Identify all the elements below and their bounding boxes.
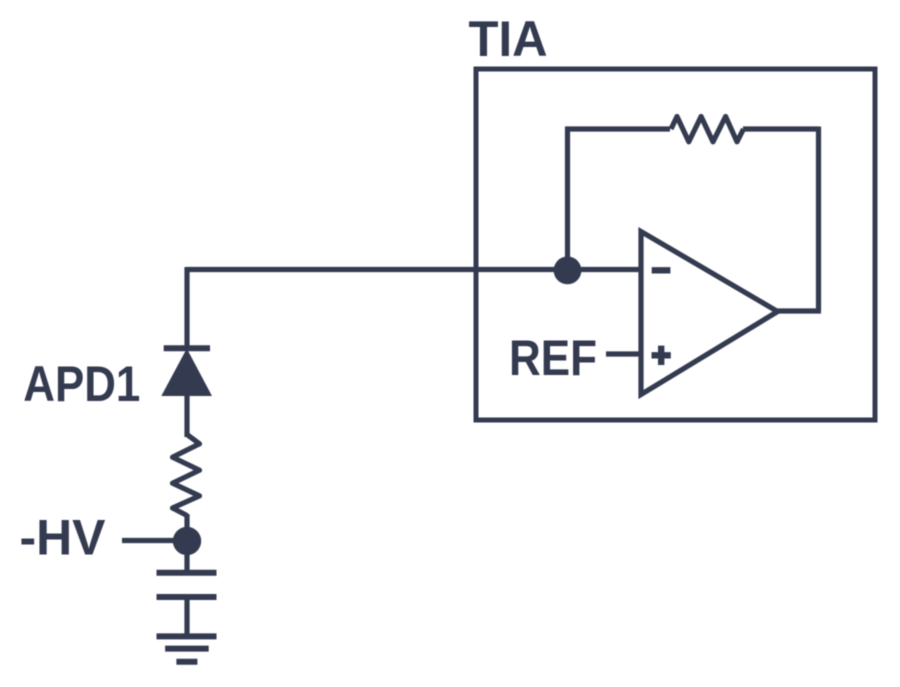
wire: feedback top right segment [743,126,819,131]
wire: vertical drop from horizontal wire to APD1 cathode [184,267,189,349]
wire: op-amp output to feedback [777,308,821,313]
op-amp inverting input minus sign [652,267,671,273]
svg-text:TIA: TIA [469,10,548,67]
wire: feedback right vertical [816,127,821,312]
resistor RF (feedback, horizontal zigzag) [671,117,744,142]
wire: -HV feed [122,538,180,543]
wire: feedback top left segment [565,126,670,131]
wire: resistor R1 to -HV node [184,514,189,540]
op-amp U1 triangle [641,232,778,395]
wire: REF to op-amp non-inverting input [606,351,641,356]
wire: capacitor C1 to ground [184,595,189,636]
wire: feedback left vertical (node to loop top) [565,129,570,270]
wire: -HV node to capacitor C1 [184,541,189,570]
svg-text:APD1: APD1 [23,355,140,412]
diode APD1 cathode bar [164,345,210,351]
wire: APD1 anode to resistor R1 [184,394,189,437]
resistor R1 (vertical zigzag) [173,435,200,516]
ground symbol [157,636,217,661]
wire: APD node to op-amp inverting input [187,267,641,272]
op-amp non-inverting input plus sign [652,346,671,365]
node: -HV junction dot [173,527,201,555]
node: junction dot at inverting input [554,257,582,285]
svg-text:-HV: -HV [20,509,106,566]
capacitor C1 bottom plate [157,594,217,600]
TIA block box [476,69,875,420]
capacitor C1 top plate [157,570,217,576]
diode APD1 triangle (anode, pointing up) [161,349,212,397]
svg-text:REF: REF [509,329,597,386]
